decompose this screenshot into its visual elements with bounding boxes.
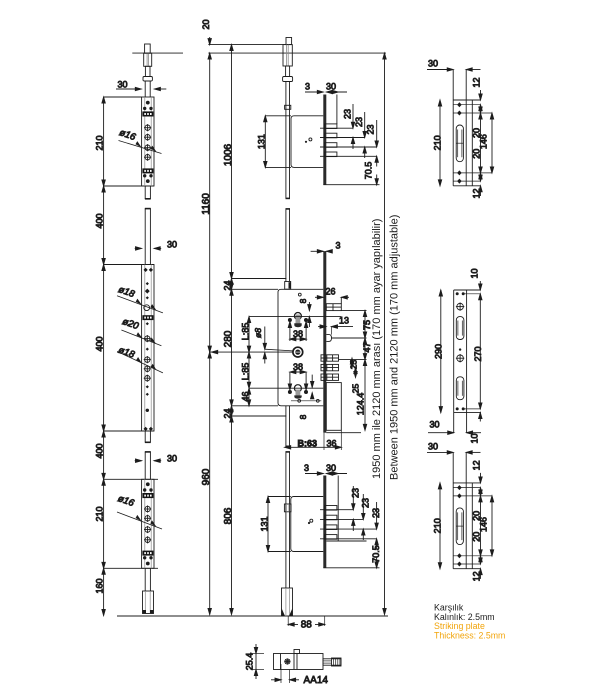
central lock case: dim 3 at faceplate top xyxy=(311,250,324,252)
svg-text:30: 30 xyxy=(428,59,438,69)
section2 latch block xyxy=(142,315,153,320)
plate 210 top edge xyxy=(453,99,480,101)
section1 top latch block xyxy=(142,111,153,116)
bottom aux case depth line xyxy=(337,476,339,542)
dim 30 middle section xyxy=(135,247,142,249)
svg-text:806: 806 xyxy=(223,507,234,524)
bottom aux box bottom xyxy=(326,540,366,542)
svg-text:38: 38 xyxy=(293,329,303,339)
dim 30 top section xyxy=(116,88,141,90)
svg-text:960: 960 xyxy=(201,468,212,485)
svg-text:10: 10 xyxy=(469,268,479,278)
section2 open circle (hook) xyxy=(144,305,150,311)
svg-text:20: 20 xyxy=(201,19,211,29)
svg-text:210: 210 xyxy=(94,135,104,150)
bottom aux case inner dot xyxy=(308,522,310,524)
upper cylinder screw dots xyxy=(288,318,292,322)
connecting rod piece to section2 xyxy=(144,208,146,264)
handle axis line to V1 xyxy=(210,351,293,353)
svg-text:L:85: L:85 xyxy=(240,363,250,381)
svg-text:23: 23 xyxy=(354,117,364,127)
plate 290 right edge xyxy=(466,290,468,433)
dim 20 at top xyxy=(209,37,211,45)
svg-text:30: 30 xyxy=(167,454,177,464)
middle rod upper shaft xyxy=(285,82,287,199)
bottom aux case body xyxy=(291,497,324,552)
dim 10 top xyxy=(479,281,481,290)
section2 small diamond xyxy=(146,322,149,325)
connecting rod piece to section3 xyxy=(144,452,146,480)
dim 270 xyxy=(479,294,481,409)
svg-text:10: 10 xyxy=(469,433,479,443)
section1 bottom rivet xyxy=(146,179,150,183)
svg-text:8: 8 xyxy=(298,414,308,419)
faceplate section 2 outline xyxy=(142,265,154,432)
left rod threaded tip xyxy=(145,44,151,53)
rod stop square xyxy=(285,105,291,109)
svg-text:210: 210 xyxy=(433,135,443,150)
middle rod nut xyxy=(283,77,293,82)
dim 23 chain top case xyxy=(352,104,354,128)
svg-text:160: 160 xyxy=(94,578,104,593)
dim 210 plate xyxy=(439,100,441,186)
top reference line lower right piece xyxy=(208,52,386,54)
plan view spindle rod xyxy=(323,659,341,665)
plate 210 lip edge xyxy=(471,100,473,186)
svg-text:124.4: 124.4 xyxy=(356,393,366,416)
left rod nut xyxy=(143,77,152,82)
svg-text:8: 8 xyxy=(298,298,308,303)
dim 12 bottom xyxy=(480,186,482,196)
section1 hook holes xyxy=(143,107,146,110)
bottom aux faceplate (thick) xyxy=(323,476,326,568)
svg-text:280: 280 xyxy=(223,330,234,347)
latch slot obround xyxy=(456,125,463,162)
dim 88 xyxy=(287,616,289,626)
lower cylinder body xyxy=(296,390,301,397)
svg-text:ø8: ø8 xyxy=(253,328,263,338)
dim 12 top xyxy=(480,90,482,100)
dim line 1006/24/280/24/806 (V2) xyxy=(231,45,233,615)
svg-text:1006: 1006 xyxy=(223,143,234,166)
svg-text:B:63: B:63 xyxy=(298,439,318,449)
faceplate section 3 outline xyxy=(142,479,154,568)
central case bottom extension xyxy=(232,405,279,407)
svg-text:88: 88 xyxy=(301,619,313,630)
svg-text:30: 30 xyxy=(117,80,127,90)
svg-text:25: 25 xyxy=(351,384,361,394)
section2 top diamonds xyxy=(144,268,154,300)
hole row extension lines xyxy=(453,104,480,106)
top aux case body xyxy=(291,116,323,168)
middle rod neck xyxy=(286,66,290,77)
extension line rod end (24 dim top) xyxy=(232,278,287,280)
dim 26 latch xyxy=(315,296,323,298)
plate 210 fold line xyxy=(465,70,467,186)
dim chain 20/20 xyxy=(480,105,482,181)
svg-text:23: 23 xyxy=(361,498,371,508)
lower cylinder screw dots xyxy=(288,390,292,394)
lower shaft below section3 xyxy=(144,568,146,591)
bolt foot marks xyxy=(143,610,147,614)
section2 lower diamonds xyxy=(144,385,154,431)
central latch box xyxy=(326,304,341,311)
svg-text:23: 23 xyxy=(371,508,381,518)
svg-text:70.5: 70.5 xyxy=(364,162,374,180)
top aux teeth extension lines xyxy=(320,127,353,129)
svg-text:23: 23 xyxy=(351,488,361,498)
central case top extension xyxy=(232,288,279,290)
plate 290 top edge xyxy=(454,289,481,291)
screw hole diamonds xyxy=(457,102,462,183)
connecting rod stub below section1 xyxy=(144,186,146,199)
connecting rod stub below section2 xyxy=(144,431,146,443)
deadbolt (central) xyxy=(326,335,331,342)
corner row extensions xyxy=(463,293,480,295)
slot lower xyxy=(456,377,464,400)
middle rod threaded tip xyxy=(286,38,292,45)
svg-text:70.5: 70.5 xyxy=(371,545,381,563)
dim 38 upper xyxy=(289,321,291,341)
middle rod top bolt xyxy=(283,45,292,66)
svg-text:23: 23 xyxy=(366,124,376,134)
dim AA14 xyxy=(280,664,282,683)
dim 8 bottom xyxy=(308,395,310,402)
rod shaft alongside top case xyxy=(285,109,287,198)
dim 10 bottom xyxy=(479,413,481,422)
svg-text:25: 25 xyxy=(348,360,358,370)
left rod neck xyxy=(145,66,150,76)
left dimension chain vertical line xyxy=(103,97,105,616)
left rod top bolt xyxy=(144,53,152,66)
svg-text:23: 23 xyxy=(343,109,353,119)
rod piece to bottom case xyxy=(285,452,287,589)
svg-text:30: 30 xyxy=(429,420,439,430)
dim 38 lower xyxy=(289,372,291,391)
top aux case depth line xyxy=(336,95,338,125)
middle striking plate 290 xyxy=(428,268,483,443)
plan view cylinder star xyxy=(285,659,290,664)
svg-text:Thickness: 2.5mm: Thickness: 2.5mm xyxy=(434,630,505,640)
top striking plate group xyxy=(427,59,494,199)
top auxiliary deadbolt case: dim 3 / 30 xyxy=(305,91,323,93)
bottom shoot bolt xyxy=(143,591,154,614)
spring arm line xyxy=(265,349,294,351)
dim L:85 / 46 vertical xyxy=(248,317,250,406)
lower cylinder circle xyxy=(294,385,301,392)
plate 290 left edge xyxy=(453,290,455,433)
svg-text:25.4: 25.4 xyxy=(245,653,255,671)
left rod upper shaft xyxy=(144,81,146,97)
svg-text:400: 400 xyxy=(94,443,104,458)
svg-text:1950 mm ile 2120 mm arası (170: 1950 mm ile 2120 mm arası (170 mm ayar y… xyxy=(371,219,383,479)
section2 screw circles group xyxy=(145,357,150,362)
central faceplate (thick) xyxy=(323,251,326,432)
svg-text:210: 210 xyxy=(94,506,104,521)
section1 bottom latch block xyxy=(142,168,153,173)
svg-text:400: 400 xyxy=(94,336,104,351)
dim 146 xyxy=(491,113,493,173)
bottom aux teeth rack xyxy=(325,506,337,540)
lower cylinder axis line xyxy=(249,387,323,389)
svg-text:30: 30 xyxy=(326,82,336,92)
svg-text:38: 38 xyxy=(293,362,303,372)
svg-text:400: 400 xyxy=(94,213,104,228)
dim 25 lower xyxy=(355,368,357,378)
screw cross circle upper xyxy=(457,303,464,310)
plan view inner lines xyxy=(280,654,282,670)
section2 diamond xyxy=(146,348,149,351)
bottom shoot bolt middle column xyxy=(282,588,293,616)
dim 25.4 xyxy=(255,644,257,679)
section3 bottom latch block xyxy=(142,551,153,556)
bottom aux case: dim 3 / 30 xyxy=(305,473,323,475)
top aux case inner dot xyxy=(305,141,307,143)
central right dim chain 75/47/124.4 xyxy=(364,311,366,431)
svg-text:20: 20 xyxy=(472,149,482,159)
top aux case inner circle xyxy=(309,138,312,141)
rod coupling turnbuckle xyxy=(284,504,291,512)
small holes bottom of case xyxy=(298,399,301,402)
section3 screw circles xyxy=(145,506,150,511)
svg-text:270: 270 xyxy=(473,346,483,361)
faceplate section 1 outline xyxy=(142,97,154,186)
svg-text:146: 146 xyxy=(479,134,489,149)
svg-text:24: 24 xyxy=(222,280,232,290)
small dim near lower area xyxy=(311,375,313,388)
slot upper xyxy=(456,317,464,340)
section3 holes xyxy=(143,488,146,491)
central tall bolt box xyxy=(326,383,341,431)
dim 25 upper xyxy=(351,358,353,368)
svg-text:131: 131 xyxy=(257,134,267,149)
dim 131 bottom case xyxy=(267,497,269,552)
rod end cap xyxy=(286,197,291,199)
svg-text:290: 290 xyxy=(433,344,443,359)
svg-text:12: 12 xyxy=(472,188,482,198)
overall height dim line 1950-2120 xyxy=(384,53,386,614)
svg-text:3: 3 xyxy=(305,82,310,92)
svg-text:46: 46 xyxy=(240,391,250,401)
small hole top of case xyxy=(298,293,301,296)
section3 top latch block xyxy=(142,493,153,498)
dim 23 chain bottom case xyxy=(352,486,354,510)
svg-text:24: 24 xyxy=(222,408,232,418)
svg-text:30: 30 xyxy=(167,240,177,250)
center dot xyxy=(459,348,461,350)
central case body xyxy=(278,289,323,406)
extension line rod start (24 dim bottom) xyxy=(232,415,287,417)
svg-text:Between 1950 mm and 2120 mm (1: Between 1950 mm and 2120 mm (170 mm adju… xyxy=(389,215,401,480)
plate 210 left edge xyxy=(452,70,454,186)
rod coupling block xyxy=(285,282,291,290)
section1 top rivet dot xyxy=(146,101,150,105)
plan view tab xyxy=(294,650,300,654)
dim 30 bottom of middle plate xyxy=(428,432,454,434)
upper cylinder hole circle xyxy=(294,313,301,320)
svg-text:3: 3 xyxy=(304,463,309,473)
top aux teeth rack xyxy=(325,124,337,157)
svg-text:36: 36 xyxy=(327,439,337,449)
upper cylinder body xyxy=(296,315,301,325)
overall dim line 1160/960 (V1) xyxy=(209,53,211,614)
section3 top rivet xyxy=(146,482,150,486)
dim 290 xyxy=(440,290,442,413)
svg-text:3: 3 xyxy=(335,241,340,251)
section3 bottom rivet xyxy=(146,562,150,566)
section3 bottom holes xyxy=(143,556,146,559)
top reference line upper (rod top level) xyxy=(208,44,291,46)
dim 131 top case xyxy=(264,116,266,168)
rod below central case xyxy=(285,406,287,447)
section1 bottom holes xyxy=(143,174,146,177)
bottom plan view body xyxy=(274,654,324,670)
chain arrows xyxy=(102,97,105,103)
dim B:63 / 36 xyxy=(296,439,339,449)
plate 210 bottom edge xyxy=(453,185,480,187)
svg-text:26: 26 xyxy=(325,287,335,297)
section2 screw circle xyxy=(145,336,150,341)
svg-text:L:85: L:85 xyxy=(240,323,250,341)
bolt box bottom extension xyxy=(326,432,361,434)
cylinder axis line xyxy=(249,316,341,318)
top aux faceplate bottom ext xyxy=(323,184,379,186)
knob (follower) xyxy=(293,347,303,357)
svg-text:13: 13 xyxy=(339,316,349,326)
top reference line lower left piece xyxy=(132,52,183,54)
svg-text:12: 12 xyxy=(472,77,482,87)
bottom aux faceplate bottom ext xyxy=(323,567,379,569)
screw cross circle lower xyxy=(457,355,464,362)
floor baseline xyxy=(117,615,388,617)
top aux faceplate (side view, thick) xyxy=(323,95,326,185)
svg-text:1160: 1160 xyxy=(201,193,212,215)
central rack boxes xyxy=(321,355,339,381)
dim dia8 follower xyxy=(264,327,266,350)
dim 30 plate xyxy=(427,69,453,71)
dim 30 bottom section xyxy=(135,460,142,462)
bottom aux case inner circle xyxy=(310,519,313,522)
bottom aux teeth extension lines xyxy=(320,509,353,511)
bottom striking plate (duplicate of top) xyxy=(427,441,494,581)
rod piece to central case xyxy=(285,209,287,282)
svg-text:131: 131 xyxy=(259,516,269,531)
plate 290 bottom edge xyxy=(454,412,481,414)
section1 screw circles xyxy=(144,124,151,161)
dim 13 deadbolt xyxy=(318,326,326,328)
corner hole dots xyxy=(456,292,465,410)
svg-text:30: 30 xyxy=(326,463,336,473)
svg-text:AA14: AA14 xyxy=(304,675,329,686)
small dim near upper latch xyxy=(308,302,310,311)
chain extension lines xyxy=(104,96,142,98)
